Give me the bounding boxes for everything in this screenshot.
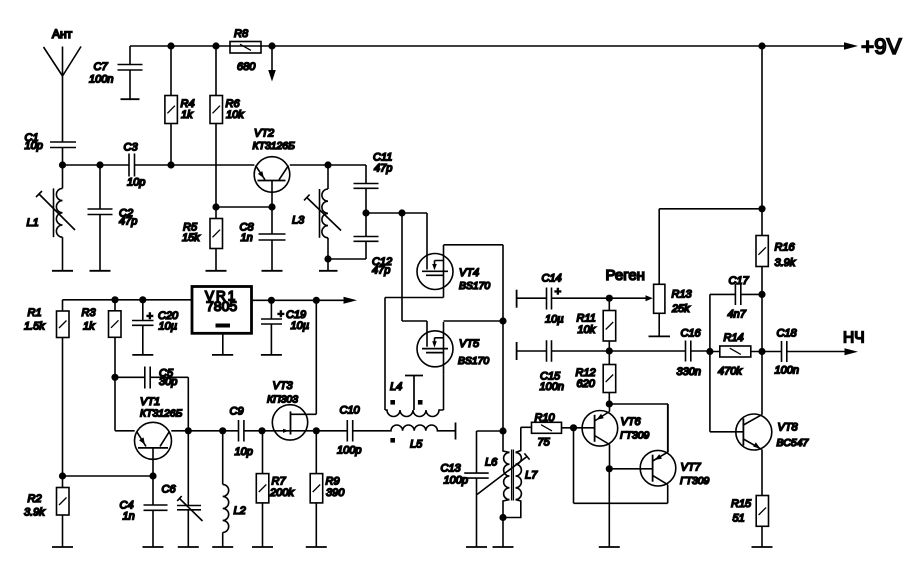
- svg-text:+: +: [555, 286, 562, 298]
- svg-text:+: +: [278, 309, 285, 321]
- ground C19: [261, 354, 282, 356]
- node R3-C5 junction: [111, 374, 118, 381]
- L6 L7 variable arrow: [477, 453, 530, 494]
- capacitor C5: [115, 367, 188, 431]
- svg-text:330n: 330n: [677, 366, 701, 378]
- capacitor C16: [686, 341, 710, 362]
- wire down-arrow tap at node 272: [271, 46, 273, 71]
- ground VR1: [212, 354, 233, 356]
- node +5V out arrow: [344, 297, 358, 304]
- node drains junction: [499, 317, 506, 324]
- resistor R15: [756, 496, 768, 527]
- wire VT7 collector feedback loop: [574, 428, 668, 504]
- wire VT5 source to L4 right: [443, 375, 445, 410]
- wire R16 bottom to NCh line: [761, 294, 763, 351]
- node R4 bottom: [167, 161, 174, 168]
- svg-text:100p: 100p: [337, 444, 361, 456]
- svg-text:10k: 10k: [226, 109, 244, 121]
- resistor R12: [608, 351, 610, 404]
- node R14 right: [758, 348, 765, 355]
- svg-text:1k: 1k: [181, 109, 193, 121]
- svg-text:КТ3126Б: КТ3126Б: [253, 141, 296, 152]
- node L3 top: [324, 161, 331, 168]
- wire VT2 collector to C11: [290, 165, 366, 184]
- wire +9V column down: [761, 46, 763, 209]
- node L3 bottom: [324, 255, 331, 262]
- svg-text:КТ3126Б: КТ3126Б: [140, 409, 183, 420]
- node NCh output arrow: [845, 348, 859, 355]
- wire signal line y165: [63, 164, 255, 166]
- svg-text:L6: L6: [485, 457, 498, 469]
- L5 phase dot: [390, 438, 395, 443]
- svg-text:47p: 47p: [374, 162, 392, 174]
- capacitor C7: [118, 46, 143, 99]
- ground R9: [306, 546, 327, 548]
- node R5 top: [212, 203, 219, 210]
- svg-text:+9V: +9V: [861, 34, 902, 59]
- capacitor C11: [354, 184, 379, 214]
- L5 right terminal bar: [455, 423, 457, 440]
- C14 input terminal bar: [516, 290, 518, 308]
- wire VT4 gate feed: [426, 213, 428, 270]
- svg-text:200k: 200k: [269, 487, 294, 499]
- resistor R10: [532, 422, 562, 433]
- svg-text:C18: C18: [777, 328, 798, 340]
- svg-text:25k: 25k: [671, 303, 690, 315]
- capacitor C1: [50, 142, 76, 165]
- inductor L6: [503, 431, 510, 452]
- resistor R5: [215, 207, 217, 271]
- wire VT2 base row y207: [216, 206, 272, 208]
- svg-text:1.5k: 1.5k: [24, 321, 45, 333]
- ground C4: [143, 546, 164, 548]
- svg-text:L3: L3: [292, 215, 305, 227]
- capacitor C19 polarized: [261, 300, 282, 355]
- transistor VT8 BC547: [736, 414, 772, 450]
- ground L2: [212, 546, 233, 548]
- svg-text:КП303: КП303: [267, 395, 298, 406]
- svg-text:15k: 15k: [182, 232, 200, 244]
- node rail-R16-column: [758, 42, 765, 49]
- resistor R11: [608, 298, 610, 351]
- svg-text:VT8: VT8: [778, 422, 799, 434]
- capacitor C3: [129, 154, 135, 177]
- transistor VT3 KP303: [272, 405, 307, 440]
- svg-text:680: 680: [237, 61, 256, 73]
- svg-text:10p: 10p: [25, 140, 43, 152]
- resistor R4: [170, 46, 172, 165]
- svg-text:100n: 100n: [540, 381, 564, 393]
- wire VT4 drain to node: [444, 245, 504, 321]
- inductor L7 top wire to R10: [521, 426, 532, 428]
- svg-text:1n: 1n: [123, 511, 135, 523]
- wire VT1 emitter up to R3 node: [115, 377, 135, 431]
- svg-text:BC547: BC547: [777, 438, 810, 449]
- L6 L7 core: [512, 450, 514, 501]
- node C2 top: [96, 161, 103, 168]
- wire VT5 drain to node: [444, 320, 504, 322]
- svg-text:+: +: [147, 311, 154, 323]
- ground VT6: [599, 546, 620, 548]
- svg-text:4n7: 4n7: [728, 309, 747, 321]
- capacitor C14 polarized: [517, 288, 646, 310]
- capacitor C2: [88, 165, 113, 271]
- svg-text:10µ: 10µ: [159, 321, 178, 333]
- ground C2: [90, 270, 111, 272]
- svg-text:R9: R9: [326, 476, 340, 488]
- svg-text:R15: R15: [731, 498, 752, 510]
- wire VT5 gate feed: [402, 213, 427, 347]
- wire emitters row y404: [609, 404, 668, 452]
- svg-text:ГТ309: ГТ309: [680, 476, 710, 487]
- node +9V arrow: [844, 42, 858, 50]
- svg-text:470k: 470k: [718, 366, 742, 378]
- transistor VT5 BS170: [417, 331, 453, 367]
- svg-text:R14: R14: [724, 332, 744, 344]
- svg-text:BS170: BS170: [459, 281, 490, 292]
- node VT1 base: [149, 472, 156, 479]
- wire VT7 base: [609, 468, 652, 470]
- svg-text:10µ: 10µ: [545, 313, 564, 325]
- svg-text:R8: R8: [234, 28, 249, 40]
- capacitor C20 polarized: [132, 300, 154, 355]
- svg-text:1n: 1n: [241, 232, 253, 244]
- svg-text:VT5: VT5: [459, 338, 480, 350]
- resistor R9: [315, 431, 317, 547]
- ground L1: [52, 270, 73, 272]
- capacitor C10: [316, 420, 352, 442]
- transistor VT1 KT3126B: [135, 422, 172, 459]
- svg-text:R11: R11: [577, 313, 596, 325]
- svg-text:3.9k: 3.9k: [24, 507, 45, 519]
- inductor L1: [62, 165, 64, 188]
- svg-text:100n: 100n: [775, 365, 799, 377]
- svg-text:47p: 47p: [119, 216, 137, 228]
- svg-text:C14: C14: [542, 273, 562, 285]
- capacitor C18: [762, 341, 845, 362]
- wire y476 base line: [63, 475, 154, 477]
- resistor R14: [710, 351, 762, 353]
- L4 centre tap bar: [405, 376, 423, 411]
- wire +5V input rail y300: [63, 299, 193, 301]
- capacitor C8: [259, 207, 286, 271]
- node VT2 base: [268, 203, 275, 210]
- transistor VT4 BS170: [417, 254, 453, 290]
- svg-text:Ант: Ант: [52, 27, 73, 41]
- svg-text:1k: 1k: [83, 321, 95, 333]
- inductor L4: [385, 410, 444, 417]
- wire junction to gates: [366, 212, 427, 214]
- resistor R3: [114, 300, 116, 378]
- svg-text:R1: R1: [28, 307, 42, 319]
- svg-text:51: 51: [733, 513, 745, 525]
- ground tank: [493, 546, 514, 548]
- wire C17 left column to VT8 base: [710, 294, 744, 431]
- L4 phase dot right: [418, 400, 423, 405]
- svg-text:C16: C16: [681, 328, 702, 340]
- ground C8: [262, 270, 283, 272]
- node gate branch: [398, 209, 405, 216]
- wire +9V top rail: [130, 45, 844, 47]
- svg-text:VT3: VT3: [273, 380, 294, 392]
- node C20 top: [139, 296, 146, 303]
- ground L3: [319, 270, 338, 272]
- svg-text:620: 620: [577, 378, 596, 390]
- svg-text:BS170: BS170: [458, 356, 489, 367]
- ground R5: [206, 270, 227, 272]
- capacitor C9: [239, 420, 263, 442]
- C15 input terminal bar: [516, 342, 518, 360]
- transistor VT2 KT3126B: [254, 157, 290, 193]
- svg-text:VT7: VT7: [681, 462, 702, 474]
- svg-text:R16: R16: [775, 242, 796, 254]
- node VT6 base: [570, 424, 577, 431]
- node R11-R12: [606, 347, 613, 354]
- node R1-R2 junction: [59, 472, 66, 479]
- node VT6 collector - VT7 base: [606, 465, 613, 472]
- svg-text:30p: 30p: [159, 376, 177, 388]
- svg-text:VT4: VT4: [459, 267, 479, 279]
- node detector top: [499, 427, 506, 434]
- node R12-VT6 emitter: [606, 400, 613, 407]
- node C14-R11: [606, 295, 613, 302]
- potentiometer R13: [654, 284, 665, 313]
- svg-text:C10: C10: [340, 405, 361, 417]
- svg-text:C6: C6: [162, 484, 177, 496]
- svg-text:C17: C17: [729, 275, 750, 287]
- ground R13: [649, 335, 671, 337]
- svg-text:C9: C9: [230, 405, 244, 417]
- svg-text:10µ: 10µ: [291, 320, 310, 332]
- inductor L7: [516, 427, 521, 452]
- R13 wiper arrow: [646, 295, 653, 301]
- ground C6: [178, 546, 199, 548]
- node R14 left: [706, 348, 713, 355]
- resistor R1: [62, 300, 64, 476]
- ground C20: [132, 354, 153, 356]
- svg-text:R2: R2: [28, 493, 42, 505]
- transistor VT7 GT309: [640, 450, 676, 486]
- svg-text:L4: L4: [390, 381, 402, 393]
- resistor R16: [761, 209, 763, 295]
- svg-text:L5: L5: [410, 439, 423, 451]
- inductor L3: [327, 165, 329, 189]
- capacitor C15: [517, 340, 686, 361]
- node VT3 drain column: [313, 297, 320, 304]
- node R9 top: [313, 427, 320, 434]
- wire +5V output rail: [252, 299, 344, 301]
- resistor R7: [262, 431, 264, 547]
- capacitor C13: [464, 431, 503, 547]
- ground C7: [121, 98, 140, 100]
- svg-text:100p: 100p: [444, 475, 468, 487]
- capacitor C4: [144, 476, 168, 547]
- resistor R8: [230, 42, 261, 54]
- wire VT1 collector row: [171, 430, 238, 432]
- svg-text:R7: R7: [272, 476, 287, 488]
- svg-text:R3: R3: [82, 307, 97, 319]
- node R13 feed: [758, 205, 765, 212]
- svg-text:390: 390: [326, 487, 345, 499]
- ground C13: [466, 546, 487, 548]
- svg-text:R13: R13: [672, 289, 693, 301]
- node L2 top: [219, 427, 226, 434]
- node C17 right: [758, 291, 765, 298]
- node R3 top: [111, 296, 118, 303]
- svg-text:75: 75: [538, 437, 551, 449]
- wire VT6 collector to ground: [608, 469, 610, 547]
- svg-text:10p: 10p: [127, 176, 145, 188]
- node R7 top: [258, 427, 265, 434]
- wire drains column down: [502, 321, 504, 431]
- node C1-L1: [59, 161, 66, 168]
- node C5-C6 column: [185, 427, 192, 434]
- L4 phase dot left: [390, 400, 395, 405]
- resistor R2: [62, 476, 64, 547]
- resistor R6: [215, 46, 217, 207]
- capacitor C6 variable: [177, 431, 201, 547]
- svg-text:C3: C3: [124, 142, 139, 154]
- capacitor C17: [710, 284, 762, 305]
- node L6-L7 bottom: [499, 514, 506, 521]
- svg-text:ГТ309: ГТ309: [620, 431, 650, 442]
- transistor VT6 GT309: [582, 411, 618, 447]
- svg-text:Реген: Реген: [606, 267, 645, 284]
- ground R7: [252, 546, 273, 548]
- svg-text:10k: 10k: [578, 324, 596, 336]
- wire tank to ground: [502, 518, 504, 548]
- svg-text:L7: L7: [525, 470, 538, 482]
- svg-text:L2: L2: [234, 505, 246, 517]
- node rail-R8-right: [268, 42, 275, 49]
- inductor L2: [222, 431, 224, 485]
- node C19 top: [268, 297, 275, 304]
- inductor L5: [353, 425, 456, 431]
- svg-text:VT1: VT1: [140, 396, 160, 408]
- capacitor C12: [328, 213, 379, 259]
- svg-text:R10: R10: [535, 412, 556, 424]
- svg-text:47p: 47p: [372, 265, 390, 277]
- wire VT4 source to L4 left: [385, 298, 444, 411]
- node rail-R4: [167, 42, 174, 49]
- svg-text:3.9k: 3.9k: [775, 257, 796, 269]
- svg-text:C13: C13: [441, 463, 462, 475]
- svg-text:VT6: VT6: [621, 416, 642, 428]
- svg-text:7805: 7805: [206, 298, 237, 314]
- node C11-C12 junction: [362, 209, 369, 216]
- svg-text:VT2: VT2: [254, 128, 274, 140]
- svg-text:НЧ: НЧ: [843, 330, 865, 347]
- node rail-R6: [212, 42, 219, 49]
- svg-text:10p: 10p: [235, 446, 253, 458]
- ground R15: [752, 546, 773, 548]
- wire L3 bottom to ground: [327, 259, 329, 271]
- svg-text:L1: L1: [27, 217, 39, 229]
- svg-text:C7: C7: [94, 61, 109, 73]
- ground R2: [52, 546, 73, 548]
- regulator VR1 7805: [192, 287, 252, 334]
- svg-text:100n: 100n: [89, 74, 113, 86]
